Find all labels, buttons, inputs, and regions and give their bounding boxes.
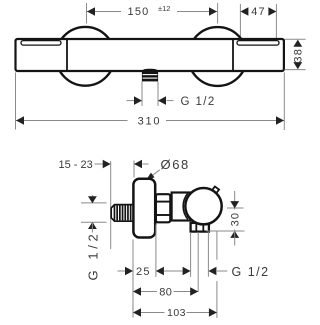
G1/2 top callout left arrow [134,96,142,105]
outlet left edge ext line [190,232,192,277]
dim 30 stem lower [234,230,236,246]
dim 103 line right [187,312,217,314]
svg-text:G 1/2: G 1/2 [86,231,101,281]
svg-text:G 1/2: G 1/2 [232,265,270,279]
svg-text:38: 38 [293,48,305,63]
escutcheon circle right [188,27,247,86]
grip inset right handle [237,41,279,46]
dim 103 right ext line [216,281,218,318]
svg-text:15 - 23: 15 - 23 [59,159,93,171]
flange face ext line lower [132,240,134,318]
dim 15-23 arrow left [103,160,111,169]
outlet center ext line [197,232,199,292]
dim 25 left line [118,270,126,272]
dim 103 arrow right [209,308,217,317]
dim 150 arrow left [87,7,95,16]
G1/2 left callout ext line bottom [81,221,107,223]
right stub ext line [216,231,218,260]
G1/2 top callout right arrow line [167,100,174,102]
dim 80 arrow right [190,287,198,296]
dim 150 ext line left [86,3,88,24]
G1/2 top callout ext line left [141,82,143,107]
outlet rib gap 2 [143,77,158,79]
G1/2 left callout lower stem [91,222,93,232]
dim 47 arrow left [240,7,248,16]
dim 310 ext line left [15,73,17,130]
dim 30 ext line bottom [206,230,244,232]
dim 310 line left segment [16,120,128,122]
G1/2 left callout upper stem [91,195,93,203]
dim 103 arrow left [133,308,141,317]
escutcheon flange (side profile) [133,179,155,238]
dim 150 line left segment [87,11,121,13]
G1/2 left callout up arrow [88,222,97,229]
G1/2 top callout left arrow line [127,100,135,102]
coupling nut flat line upper [156,201,169,203]
dim 30 ext line top [227,207,244,209]
dim 25 left arrow [125,267,133,276]
dim 310 arrow left [16,116,24,125]
G1/2 top callout ext line right [157,82,159,107]
dim 80 line left [141,291,157,293]
thermostat knob circle [185,188,221,224]
grip inset left handle [21,41,61,46]
coupling nut [156,194,170,222]
mixer bar body [16,39,284,71]
svg-text:150: 150 [128,6,150,18]
dim 30 up arrow [230,231,239,238]
dim 15-23 line left [95,163,103,165]
handle junction line left [66,40,68,71]
svg-text:80: 80 [159,286,172,298]
G1/2 bottom callout right arrow [208,267,216,276]
G1/2 left callout down arrow [88,196,97,203]
svg-text:25: 25 [136,266,151,278]
knob rear cap arc [183,193,188,219]
outlet right edge ext line [207,232,209,277]
outlet ribbed block [142,71,158,82]
diameter 68 leader arrow [146,173,155,181]
nut face ext line [155,225,157,278]
G1/2 top callout right arrow [158,96,166,105]
diameter 68 leader line [148,170,160,179]
dim 30 stem upper [234,191,236,210]
dim 310 ext line right [283,73,285,131]
svg-text:47: 47 [251,6,266,18]
dim 103 line left [141,312,165,314]
safety button tab [212,186,219,193]
link line between callouts [164,270,183,272]
dim 80 line right [174,291,199,293]
G1/2 bottom callout line [217,270,227,272]
bottom outlet block [191,223,209,232]
dim 38 arrow up [293,40,302,47]
dim 38 ext line top [285,38,306,40]
handle junction line right [232,40,234,71]
dim 80 arrow left [133,287,141,296]
dim 310 line right segment [166,120,284,122]
svg-text:310: 310 [138,115,162,127]
dim 310 arrow right [276,116,284,125]
G1/2 left callout ext line top [81,202,107,204]
dim 47 ext line right [275,4,277,39]
svg-text:±12: ±12 [158,4,170,13]
dim 150 ext line right [217,3,219,24]
dim 150 arrow right [209,7,217,16]
dim 47 ext line left [239,4,241,37]
dim 30 down arrow [230,201,239,208]
coupling nut flat line lower [156,214,169,216]
G1/2 bottom callout left arrow [183,267,191,276]
dim 150 line right segment [177,11,217,13]
bottom outlet division line left [195,223,197,231]
svg-text:G 1/2: G 1/2 [181,96,216,108]
dim 38 ext line bottom [285,69,306,71]
nipple thread stripes [114,205,132,220]
svg-text:103: 103 [167,307,186,319]
outlet dome (center G1/2 connection) [142,69,158,72]
dim 47 arrow right [268,7,276,16]
valve body [172,193,195,221]
dim 15-23 arrow right [134,160,142,169]
outlet rib gap 1 [143,74,158,76]
dim 15-23 line right [143,163,149,165]
dim 38 arrow down [293,62,302,69]
dim 25 right arrow [156,267,164,276]
flange face ext line upper [133,161,135,178]
escutcheon circle left [56,27,115,86]
wall nipple thread body [111,205,133,222]
wall plane line [110,161,112,249]
bottom outlet division line right [202,223,204,231]
svg-text:Ø68: Ø68 [161,157,190,172]
svg-text:30: 30 [230,212,242,227]
